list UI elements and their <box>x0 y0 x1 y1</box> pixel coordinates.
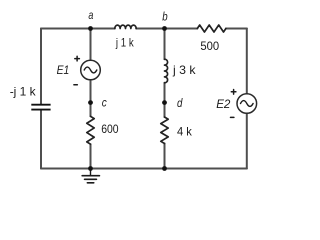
wire R600 bottom to ground rail <box>90 144 92 168</box>
wire R4k bottom to bottom rail <box>164 144 166 169</box>
wire right rail lower <box>246 113 248 168</box>
svg-text:a: a <box>88 8 93 22</box>
svg-text:c: c <box>102 95 107 109</box>
svg-text:-j 1 k: -j 1 k <box>10 84 37 98</box>
wire L j3k bottom through node d to R4k <box>164 83 166 117</box>
resistor R600 (vertical, below c) <box>87 116 94 144</box>
svg-text:E2: E2 <box>216 97 231 111</box>
wire left rail upper <box>40 29 42 105</box>
junction node b <box>162 26 167 31</box>
wire top-left segment <box>41 28 115 30</box>
junction node d <box>162 100 167 105</box>
junction node c <box>88 100 93 105</box>
resistor R4k (vertical, below d) <box>161 117 168 144</box>
ground symbol <box>82 169 99 183</box>
wire bottom <box>41 168 247 170</box>
svg-text:d: d <box>177 96 183 110</box>
svg-text:4 k: 4 k <box>177 125 193 139</box>
wire top-middle segment <box>136 28 197 30</box>
wire node a to E1 top <box>90 29 92 61</box>
E2 plus sign <box>231 90 236 95</box>
inductor L1 j1k (horizontal, between a and b) <box>115 25 136 28</box>
junction bottom-left (ground) <box>88 166 93 171</box>
E2 minus sign <box>231 116 234 118</box>
resistor R500 (horizontal, top right) <box>197 25 226 32</box>
svg-text:E1: E1 <box>57 63 70 77</box>
svg-text:600: 600 <box>101 122 119 136</box>
junction node a <box>88 26 93 31</box>
svg-text:b: b <box>162 9 168 23</box>
svg-text:500: 500 <box>200 39 219 53</box>
source E2 <box>237 94 257 114</box>
capacitor -j1k (left rail) <box>31 105 50 110</box>
wire top-right segment <box>226 28 247 30</box>
wire left rail lower <box>40 110 42 168</box>
E1 minus sign <box>74 84 77 86</box>
source E1 <box>81 60 101 80</box>
svg-text:j 3 k: j 3 k <box>172 63 197 77</box>
junction bottom-right <box>162 166 167 171</box>
svg-text:j 1 k: j 1 k <box>115 35 134 49</box>
inductor L2 j3k (vertical, below b) <box>165 59 168 83</box>
wire E1 bottom through node c to R600 <box>90 80 92 117</box>
E1 plus sign <box>75 56 80 61</box>
wire node b to L j3k top <box>164 29 166 60</box>
wire right rail upper <box>246 29 248 94</box>
